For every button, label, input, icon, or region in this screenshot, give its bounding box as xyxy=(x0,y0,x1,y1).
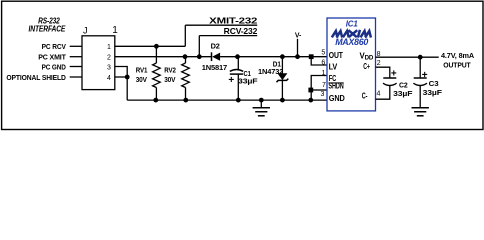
svg-text:1N5817: 1N5817 xyxy=(202,63,227,72)
svg-text:V-: V- xyxy=(295,31,302,40)
varistor RV2 xyxy=(185,57,187,63)
svg-text:4.7V, 8mA: 4.7V, 8mA xyxy=(441,51,475,60)
capacitor C3 33uF xyxy=(419,57,421,78)
svg-text:RCV-232: RCV-232 xyxy=(224,27,258,36)
svg-text:+: + xyxy=(228,75,234,86)
ground xyxy=(260,100,262,108)
svg-text:LV: LV xyxy=(329,62,338,71)
wire OPTIONAL SHIELD stub xyxy=(115,76,127,78)
node RV1 bottom xyxy=(153,98,158,103)
svg-text:+: + xyxy=(391,69,397,80)
wire (J1 left stub) xyxy=(70,76,82,78)
svg-text:MAX860: MAX860 xyxy=(335,37,369,47)
wire C2 to C- pin xyxy=(376,86,390,100)
node RCV riser junction xyxy=(197,54,202,59)
svg-text:J: J xyxy=(83,26,87,36)
varistor RV1 xyxy=(155,46,157,63)
node C1 top xyxy=(235,54,240,59)
wire SHDN stub xyxy=(311,89,327,91)
wire RCV-232 stub xyxy=(199,35,257,37)
border frame xyxy=(2,1,483,129)
svg-text:RV2: RV2 xyxy=(164,66,176,75)
svg-text:OUT: OUT xyxy=(329,51,343,60)
node ground junction xyxy=(259,98,264,103)
svg-text:30V: 30V xyxy=(136,75,148,84)
wire PC GND down to ground rail xyxy=(115,67,127,101)
wire riser to XMIT-232 xyxy=(184,25,186,46)
logo MAXIM xyxy=(333,31,371,36)
svg-text:GND: GND xyxy=(329,94,345,103)
wire VDD output rail xyxy=(376,56,439,58)
IC U1 : IC1 MAX860 charge-pump box xyxy=(327,18,376,111)
svg-text:OPTIONAL SHIELD: OPTIONAL SHIELD xyxy=(6,73,66,82)
wire (J1 left stub) xyxy=(70,56,82,58)
svg-text:PC XMIT: PC XMIT xyxy=(38,53,66,62)
svg-text:3: 3 xyxy=(320,91,324,98)
node C3 top xyxy=(418,55,423,60)
capacitor C2 33uF xyxy=(383,77,396,79)
svg-text:C+: C+ xyxy=(363,62,370,71)
svg-text:7: 7 xyxy=(322,82,326,89)
svg-text:2: 2 xyxy=(107,55,111,62)
svg-text:PC GND: PC GND xyxy=(42,62,67,71)
ground (C3) xyxy=(419,86,421,108)
node C1 bottom xyxy=(236,98,241,103)
wire V- rail xyxy=(238,56,327,58)
node OUT/LV junction pad xyxy=(309,54,314,59)
node shield/gnd junction xyxy=(125,75,130,80)
wire C+ to C2 xyxy=(376,67,390,78)
node D1 bottom xyxy=(280,98,285,103)
svg-text:1: 1 xyxy=(112,25,118,36)
zener D1 1N4732 xyxy=(281,57,283,74)
svg-text:30V: 30V xyxy=(164,75,176,84)
node D1 top xyxy=(280,54,285,59)
svg-text:+: + xyxy=(422,70,428,81)
svg-text:XMIT-232: XMIT-232 xyxy=(209,16,258,25)
wire FC tie xyxy=(311,76,327,101)
svg-text:C3: C3 xyxy=(429,79,439,88)
svg-text:33µF: 33µF xyxy=(393,89,413,98)
svg-text:RV1: RV1 xyxy=(136,66,148,75)
svg-text:6: 6 xyxy=(321,59,325,66)
svg-text:INTERFACE: INTERFACE xyxy=(29,24,66,33)
svg-text:1: 1 xyxy=(107,44,111,51)
wire ground rail xyxy=(127,99,327,101)
svg-text:33µF: 33µF xyxy=(423,88,443,97)
node RV1 top xyxy=(154,44,159,49)
svg-text:33µF: 33µF xyxy=(238,76,258,85)
wire XMIT-232 stub xyxy=(185,24,257,26)
capacitor C1 33uF xyxy=(237,57,239,71)
wire LV drop xyxy=(311,57,327,65)
svg-text:C-: C- xyxy=(362,92,368,101)
wire (J1 left stub) xyxy=(70,45,82,47)
svg-text:D2: D2 xyxy=(211,41,220,50)
diode D2 1N5817 xyxy=(211,52,213,61)
svg-text:IC1: IC1 xyxy=(346,19,359,28)
svg-text:5: 5 xyxy=(321,49,325,56)
wire PC XMIT row xyxy=(115,56,212,58)
svg-text:PC RCV: PC RCV xyxy=(42,42,67,51)
wire (J1 left stub) xyxy=(70,66,82,68)
node SHDN junction pad xyxy=(308,88,313,93)
node FC/SHDN to rail xyxy=(308,98,313,103)
node RV2 bottom xyxy=(183,98,188,103)
wire PC RCV row xyxy=(115,45,186,47)
svg-text:OUTPUT: OUTPUT xyxy=(443,60,471,69)
wire riser to RCV-232 xyxy=(198,36,200,57)
svg-text:2: 2 xyxy=(377,60,381,67)
svg-text:4: 4 xyxy=(377,90,381,97)
svg-text:1N4732: 1N4732 xyxy=(258,67,283,76)
svg-text:1: 1 xyxy=(321,70,325,77)
connector J1 xyxy=(82,36,115,90)
svg-text:3: 3 xyxy=(107,64,111,71)
svg-text:4: 4 xyxy=(107,75,111,82)
node RV2 top xyxy=(183,54,188,59)
